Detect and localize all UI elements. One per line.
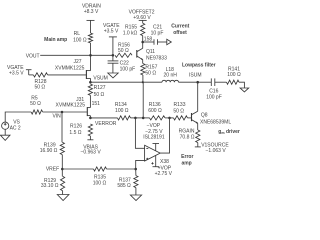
wire R133 to Q8 base [188,117,192,119]
resistor R135 [94,167,107,171]
svg-text:ISL28191: ISL28191 [143,135,165,141]
power tap VDRAIN [87,20,95,33]
svg-text:−1.063 V: −1.063 V [206,148,227,154]
inductor L18 [162,80,179,82]
wire R128 to J27 gate [48,74,87,76]
op-amp X38 ISL28191 [145,145,161,161]
wire L18 to ISUM [179,81,198,83]
wire R155 to node 158 [142,36,144,42]
svg-text:−0.963 V: −0.963 V [81,150,102,156]
svg-text:R133: R133 [174,102,186,108]
svg-text:RL: RL [74,31,81,37]
svg-text:20 nH: 20 nH [164,72,178,78]
op-amp positive supply pin [151,156,159,167]
node C R135 R137 junction [134,168,137,171]
terminal V1SOURCE tick [195,146,201,148]
svg-text:VREF: VREF [46,167,59,173]
svg-text:158: 158 [144,36,153,42]
wire ISUM to C16 [198,81,212,83]
wire VIN to R139 [61,112,63,142]
wire R127 to J31 [89,95,91,107]
wire node C to R137 [135,169,137,176]
ground below VS [0,135,10,140]
svg-text:50 Ω: 50 Ω [34,85,45,91]
wire R129 to ground [62,191,64,195]
capacitor C22 [108,55,119,73]
svg-text:XVMMK1225: XVMMK1225 [55,65,85,71]
resistor R141 [227,80,240,84]
svg-text:AC 2: AC 2 [10,125,21,131]
svg-text:+3.5 V: +3.5 V [9,71,24,77]
node VGATE mid tap [112,54,115,57]
wire C16 to R141 [215,81,227,83]
wire VIN to J31 gate [62,111,87,113]
svg-text:ISUM: ISUM [189,72,202,78]
wire Q8 emitter to RGAIN [197,123,199,130]
wire lowpass tap down [142,82,144,118]
wire node 158 to Q11 collector [142,42,144,48]
wire R126 to VBIAS [89,136,91,140]
terminal VBIAS tick [87,139,93,141]
node VOUT at J27 drain [89,54,92,57]
wire output node to R133 [170,117,174,119]
wire RGAIN to V1SOURCE [197,143,199,147]
ground below R141 [240,88,249,92]
svg-text:100 pF: 100 pF [120,67,136,73]
svg-text:Main amp: Main amp [44,37,67,43]
wire R136 to output node [165,117,170,119]
wire node B2 to opamp noninverting input [136,160,145,169]
resistor R5 [31,110,42,114]
svg-text:Lowpass filter: Lowpass filter [182,62,216,68]
transistor J27 [86,55,90,82]
wire ISUM to Q8 collector [197,82,199,111]
resistor R133 [174,116,188,120]
svg-text:33.10 Ω: 33.10 Ω [41,183,59,189]
resistor R156 [115,53,132,57]
wire VREF to R135 [62,168,93,170]
wire VSUM rail [90,81,142,83]
svg-text:585 Ω: 585 Ω [117,183,131,189]
svg-text:XNE68539ML: XNE68539ML [200,119,231,125]
resistor R139 [60,142,64,154]
svg-text:+3.5 V: +3.5 V [104,28,119,34]
capacitor C16 [211,78,215,86]
svg-text:16.90 Ω: 16.90 Ω [40,148,58,154]
capacitor C21 [154,39,158,45]
wire VOUT rail [40,54,113,56]
node ISUM [196,81,199,84]
svg-text:100 Ω: 100 Ω [115,108,129,114]
svg-text:+2.75 V: +2.75 V [155,171,173,177]
wire node A to lowpass tap [135,117,143,119]
svg-text:X38: X38 [160,159,169,165]
svg-text:R155: R155 [125,24,137,30]
svg-text:1.5 Ω: 1.5 Ω [69,130,81,136]
svg-text:100 Ω: 100 Ω [73,38,87,44]
svg-text:100 Ω: 100 Ω [93,181,107,187]
svg-text:VSUM: VSUM [93,75,107,81]
svg-text:amp: amp [181,160,191,166]
transistor Q11 [137,48,143,60]
wire R134 to node A [131,117,136,119]
svg-text:Q8: Q8 [201,113,208,119]
wire VERROR to R134 [90,117,117,119]
svg-text:10 pF: 10 pF [151,31,164,37]
svg-text:50 Ω: 50 Ω [173,108,184,114]
ground below R129 [57,195,69,201]
svg-text:Q11: Q11 [146,49,155,55]
label Current offset [171,24,189,36]
power tap VGATE mid [109,37,117,55]
svg-text:100 Ω: 100 Ω [227,72,241,78]
resistor R129 [61,176,65,190]
resistor R137 [134,176,138,188]
wire rail to L18 [143,81,162,83]
power tap VGATE left [26,70,34,75]
svg-text:J27: J27 [74,59,82,65]
svg-text:R127: R127 [94,85,106,91]
svg-text:600 Ω: 600 Ω [148,108,162,114]
wire VREF to R129 [61,169,63,176]
wire C21 to arrow [158,41,167,43]
voltage source VS AC 2 [2,122,9,129]
wire node B to R136 [143,117,149,119]
svg-text:50 Ω: 50 Ω [145,70,156,76]
resistor R155 [141,23,145,35]
node 158 [141,41,144,44]
junction R157 lowpass [142,81,144,83]
resistor RGAIN [196,130,200,143]
svg-text:C22: C22 [120,60,129,66]
node B lowpass tap junction [142,117,145,120]
ground below R137 [130,195,141,201]
wire R139 to VREF [61,155,63,169]
svg-text:C16: C16 [209,88,218,94]
svg-text:100 pF: 100 pF [206,95,222,101]
wire node 158 to C21 [143,41,154,43]
svg-text:VIN: VIN [52,114,61,120]
node VREF [61,168,64,171]
wire R157 to lowpass rail [142,75,144,82]
ground below C22 [108,73,118,78]
resistor R157 [141,64,145,76]
label Error amp [181,154,193,167]
resistor R127 [88,84,92,95]
transistor Q8 [192,111,198,123]
wire VS to ground [4,129,6,135]
resistor R136 [150,116,166,120]
transistor J31 [87,107,90,118]
wire VS to R5 [5,112,31,122]
node VSUM [89,81,92,84]
svg-text:R126: R126 [70,124,82,130]
resistor R128 [33,73,47,77]
op-amp negative supply pin [153,144,160,151]
svg-text:VERROR: VERROR [95,121,117,127]
wire R141 to ground [239,82,244,88]
node VERROR [89,117,92,120]
wire RL to VOUT node [90,43,92,55]
wire Q11 emitter to R157 [142,60,144,64]
svg-text:VOUT: VOUT [26,53,40,59]
wire R135 to node C [107,168,136,170]
power tap VOFFSET2 [139,20,147,23]
svg-text:50 Ω: 50 Ω [118,48,129,54]
svg-text:NE97833: NE97833 [146,55,167,61]
svg-text:+8.3 V: +8.3 V [84,9,99,15]
node VIN [61,111,64,114]
svg-text:Error: Error [181,154,193,160]
svg-text:70.8 Ω: 70.8 Ω [180,134,195,140]
wire R5 to VIN [43,111,62,113]
node A R134 R136 junction [134,117,137,120]
svg-text:50 Ω: 50 Ω [30,101,41,107]
wire opamp output [160,118,169,153]
svg-text:1.0 kΩ: 1.0 kΩ [123,31,138,37]
resistor RL [88,33,92,43]
resistor R126 [88,124,92,136]
svg-text:151: 151 [92,101,101,107]
svg-text:C21: C21 [153,25,162,31]
wire node A to opamp inverting input [135,118,144,148]
node output junction [168,117,171,120]
wire R137 to ground [135,188,137,195]
svg-text:offset: offset [173,30,187,36]
arrow current offset output [167,39,172,44]
svg-text:50 Ω: 50 Ω [94,92,105,98]
resistor R134 [118,116,131,120]
svg-text:Current: Current [171,24,189,30]
svg-text:XVMMK1225: XVMMK1225 [56,103,86,109]
